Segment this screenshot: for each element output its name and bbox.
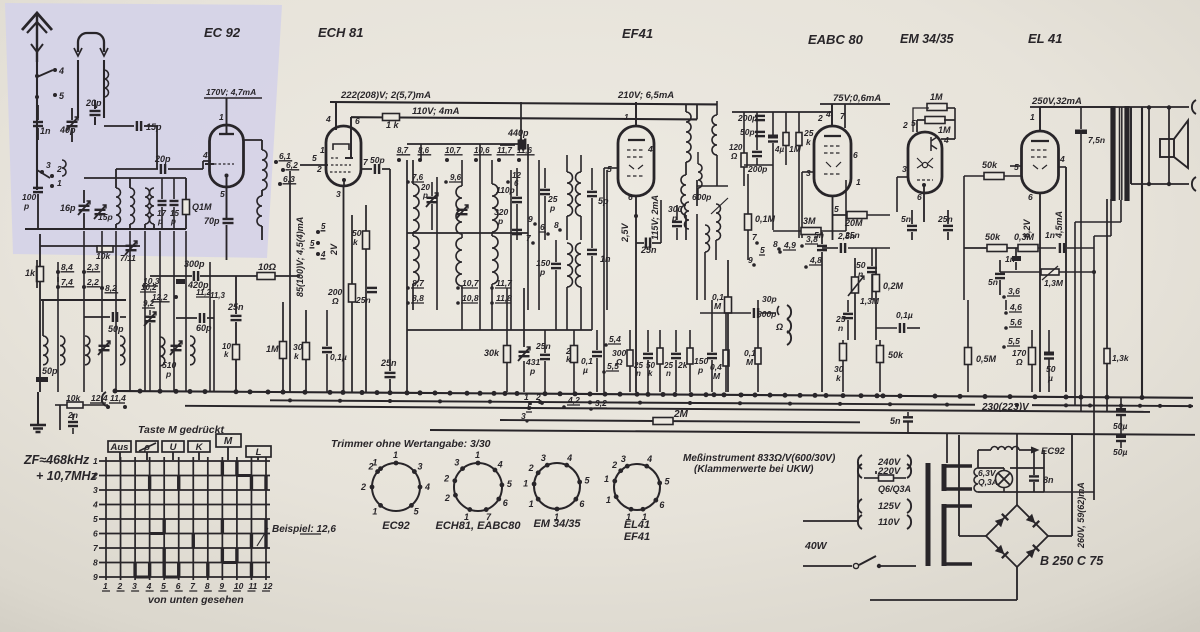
svg-text:3M: 3M: [803, 216, 816, 226]
svg-text:4,2: 4,2: [567, 395, 580, 405]
svg-text:210V; 6,5mA: 210V; 6,5mA: [617, 90, 674, 101]
svg-text:1n: 1n: [40, 126, 51, 136]
svg-text:0,3M: 0,3M: [1014, 232, 1035, 242]
svg-text:Q6/Q3A: Q6/Q3A: [878, 484, 911, 494]
svg-text:M: M: [713, 371, 721, 381]
svg-text:Trimmer ohne Wertangabe: 3/30: Trimmer ohne Wertangabe: 3/30: [331, 438, 491, 450]
svg-text:15p: 15p: [146, 122, 162, 132]
svg-text:5: 5: [220, 189, 225, 199]
svg-text:1: 1: [320, 145, 325, 155]
svg-text:n: n: [666, 369, 671, 378]
svg-text:3,2: 3,2: [595, 398, 607, 408]
svg-text:p: p: [697, 365, 703, 375]
svg-text:110V: 110V: [878, 517, 900, 528]
svg-text:1: 1: [372, 457, 377, 467]
svg-text:Beispiel: 12,6: Beispiel: 12,6: [272, 524, 336, 535]
svg-text:µ: µ: [1047, 373, 1053, 383]
svg-text:10Ω: 10Ω: [258, 262, 277, 273]
svg-text:4: 4: [566, 453, 572, 463]
svg-text:3: 3: [454, 457, 459, 467]
svg-text:EABC 80: EABC 80: [808, 32, 864, 47]
svg-text:8: 8: [554, 220, 559, 230]
svg-text:1: 1: [103, 581, 108, 591]
svg-text:2: 2: [92, 471, 98, 481]
svg-text:4µ: 4µ: [774, 145, 784, 154]
svg-text:1,3k: 1,3k: [1112, 353, 1130, 363]
svg-text:110p: 110p: [496, 185, 515, 195]
svg-text:5: 5: [93, 514, 98, 524]
svg-text:1M: 1M: [930, 92, 943, 102]
svg-text:10,6: 10,6: [474, 146, 490, 155]
svg-text:9: 9: [219, 581, 224, 591]
svg-text:260V, 59(62)mA: 260V, 59(62)mA: [1076, 482, 1086, 549]
svg-text:4: 4: [320, 250, 326, 259]
svg-text:11: 11: [248, 581, 257, 591]
svg-text:M: M: [224, 436, 233, 447]
svg-text:Ω: Ω: [1015, 357, 1023, 367]
svg-text:3: 3: [902, 164, 907, 174]
svg-text:EL41: EL41: [624, 519, 650, 531]
svg-text:4: 4: [497, 459, 503, 469]
svg-text:3: 3: [621, 454, 626, 464]
svg-text:1: 1: [624, 112, 629, 122]
svg-text:1,3M: 1,3M: [1044, 278, 1064, 288]
svg-text:1: 1: [529, 499, 534, 509]
svg-text:p: p: [23, 201, 29, 211]
svg-text:222(208)V; 2(5,7)mA: 222(208)V; 2(5,7)mA: [340, 90, 431, 101]
svg-text:25n: 25n: [640, 245, 657, 255]
svg-text:25n: 25n: [535, 341, 551, 351]
svg-text:5: 5: [607, 164, 612, 174]
svg-text:1n: 1n: [1045, 230, 1055, 240]
svg-text:6: 6: [355, 116, 360, 126]
svg-text:6: 6: [176, 581, 181, 591]
svg-text:4: 4: [92, 500, 98, 510]
svg-text:3: 3: [418, 461, 423, 471]
svg-text:2V: 2V: [329, 243, 339, 256]
svg-text:K: K: [196, 442, 204, 453]
svg-text:8,6: 8,6: [418, 146, 430, 155]
svg-text:5: 5: [1014, 162, 1019, 172]
svg-text:(Klammerwerte bei UKW): (Klammerwerte bei UKW): [694, 464, 814, 475]
svg-text:EC92: EC92: [382, 520, 410, 532]
svg-text:6: 6: [540, 222, 545, 232]
svg-text:2: 2: [56, 164, 62, 174]
svg-text:3: 3: [336, 189, 341, 199]
svg-text:9,6: 9,6: [450, 173, 462, 182]
svg-text:EC 92: EC 92: [204, 25, 241, 40]
svg-text:2: 2: [528, 463, 534, 473]
svg-text:2: 2: [902, 120, 908, 130]
svg-text:25n: 25n: [355, 295, 371, 305]
svg-text:6,3: 6,3: [283, 174, 295, 184]
svg-text:1: 1: [57, 178, 62, 188]
svg-text:600p: 600p: [692, 192, 711, 202]
svg-text:11,8: 11,8: [496, 293, 512, 303]
svg-text:+ 10,7MHz: + 10,7MHz: [36, 469, 98, 483]
svg-text:50p: 50p: [740, 127, 755, 137]
svg-text:75V;0,6mA: 75V;0,6mA: [833, 93, 881, 104]
svg-text:5: 5: [312, 153, 317, 163]
svg-text:1k: 1k: [25, 268, 36, 278]
svg-text:11,7: 11,7: [497, 146, 513, 155]
svg-text:3: 3: [132, 581, 137, 591]
svg-text:250V,32mA: 250V,32mA: [1031, 96, 1082, 107]
svg-text:3: 3: [806, 168, 811, 178]
svg-text:4,5mA: 4,5mA: [1054, 211, 1064, 239]
svg-text:50µ: 50µ: [1113, 447, 1127, 457]
svg-text:1: 1: [372, 507, 377, 517]
svg-text:10,2: 10,2: [141, 283, 157, 292]
svg-text:8,4: 8,4: [61, 262, 73, 272]
svg-text:Meßinstrument 833Ω/V(600/30V): Meßinstrument 833Ω/V(600/30V): [683, 453, 836, 464]
svg-text:ECH81, EABC80: ECH81, EABC80: [436, 520, 522, 532]
svg-text:2,5V: 2,5V: [620, 222, 630, 243]
svg-text:Ω: Ω: [730, 152, 738, 161]
svg-text:1M: 1M: [266, 344, 279, 354]
svg-text:25n: 25n: [937, 214, 953, 224]
svg-text:6: 6: [1028, 192, 1033, 202]
svg-text:110V; 4mA: 110V; 4mA: [412, 106, 460, 117]
svg-text:50k: 50k: [985, 232, 1001, 242]
svg-text:25n: 25n: [380, 358, 397, 368]
svg-text:1: 1: [524, 392, 529, 402]
svg-text:50k: 50k: [982, 160, 998, 170]
svg-text:6,2: 6,2: [286, 160, 298, 170]
svg-text:50p: 50p: [370, 155, 385, 165]
svg-text:1: 1: [219, 112, 224, 122]
svg-text:Taste M gedrückt: Taste M gedrückt: [138, 424, 224, 436]
svg-text:9: 9: [93, 572, 98, 582]
svg-text:p: p: [539, 267, 545, 277]
svg-text:40W: 40W: [804, 540, 828, 552]
svg-text:10k: 10k: [66, 393, 81, 403]
svg-text:70p: 70p: [204, 216, 220, 226]
svg-text:115V; 2mA: 115V; 2mA: [650, 195, 660, 240]
svg-text:8: 8: [773, 239, 778, 249]
svg-text:ECH 81: ECH 81: [318, 25, 364, 40]
svg-text:U: U: [170, 442, 178, 453]
svg-text:200p: 200p: [737, 113, 757, 123]
svg-text:2: 2: [444, 493, 450, 503]
svg-text:2: 2: [611, 460, 617, 470]
svg-text:1: 1: [1030, 112, 1035, 122]
svg-text:k: k: [224, 350, 229, 359]
svg-text:6: 6: [93, 529, 98, 539]
svg-text:4: 4: [646, 454, 652, 464]
svg-text:20p: 20p: [154, 154, 171, 164]
svg-text:µ: µ: [582, 365, 588, 375]
svg-text:5,4: 5,4: [609, 334, 621, 344]
svg-text:4: 4: [146, 581, 152, 591]
svg-text:16p: 16p: [60, 203, 76, 213]
svg-text:4,6: 4,6: [1009, 302, 1022, 312]
svg-text:7/11: 7/11: [120, 253, 136, 263]
svg-text:11,4: 11,4: [110, 393, 126, 403]
svg-text:1: 1: [604, 474, 609, 484]
svg-text:Ω: Ω: [775, 322, 783, 332]
svg-text:10,7: 10,7: [462, 278, 480, 288]
svg-text:M: M: [714, 301, 722, 311]
svg-text:10,8: 10,8: [462, 293, 479, 303]
svg-text:p: p: [497, 216, 503, 226]
svg-text:1n: 1n: [600, 254, 611, 264]
svg-text:5: 5: [527, 402, 532, 412]
svg-text:300p: 300p: [184, 259, 205, 269]
svg-text:15p: 15p: [98, 212, 113, 222]
svg-text:5n: 5n: [890, 416, 901, 426]
svg-text:11,7: 11,7: [496, 278, 513, 288]
svg-text:230(223)V: 230(223)V: [981, 402, 1030, 413]
svg-text:4: 4: [647, 144, 653, 154]
svg-text:2: 2: [817, 113, 823, 123]
svg-text:30k: 30k: [484, 348, 500, 358]
svg-text:von unten gesehen: von unten gesehen: [148, 594, 244, 606]
svg-text:2,3: 2,3: [86, 262, 99, 272]
svg-text:L: L: [256, 447, 262, 458]
svg-text:2: 2: [117, 581, 123, 591]
svg-text:12: 12: [263, 581, 273, 591]
svg-text:10k: 10k: [96, 251, 111, 261]
svg-text:1: 1: [523, 478, 528, 488]
svg-text:5: 5: [911, 118, 916, 128]
svg-text:9: 9: [528, 214, 533, 224]
svg-text:k: k: [648, 369, 653, 378]
svg-text:6: 6: [628, 192, 633, 202]
svg-text:p: p: [170, 217, 176, 226]
svg-text:1 k: 1 k: [386, 120, 400, 130]
svg-text:60p: 60p: [196, 323, 212, 333]
svg-text:M: M: [746, 357, 754, 367]
svg-text:EF41: EF41: [624, 531, 650, 543]
svg-text:1: 1: [93, 456, 98, 466]
svg-text:8,7: 8,7: [412, 278, 425, 288]
svg-text:5n: 5n: [901, 214, 911, 224]
svg-text:120: 120: [729, 143, 743, 152]
svg-text:0,1µ: 0,1µ: [896, 310, 913, 320]
svg-text:4,9: 4,9: [783, 240, 796, 250]
svg-text:8: 8: [93, 558, 98, 568]
svg-text:2: 2: [535, 392, 541, 402]
svg-text:EM 34/35: EM 34/35: [900, 32, 955, 46]
svg-text:Aus: Aus: [110, 442, 129, 453]
svg-text:50k: 50k: [888, 350, 904, 360]
svg-text:8,8: 8,8: [412, 293, 424, 303]
svg-text:10,7: 10,7: [445, 146, 461, 155]
svg-text:12,4: 12,4: [91, 393, 108, 403]
svg-text:800p: 800p: [757, 309, 776, 319]
svg-text:2M: 2M: [673, 409, 689, 420]
svg-text:1M: 1M: [938, 125, 951, 135]
svg-text:25n: 25n: [844, 230, 860, 240]
svg-text:9: 9: [748, 255, 753, 265]
svg-text:7,5n: 7,5n: [1088, 135, 1105, 145]
svg-text:4: 4: [202, 150, 208, 160]
svg-text:20M: 20M: [844, 218, 863, 228]
svg-text:1: 1: [856, 177, 861, 187]
svg-text:p: p: [165, 369, 171, 379]
svg-text:170V; 4,7mA: 170V; 4,7mA: [206, 87, 256, 97]
svg-text:30p: 30p: [762, 294, 777, 304]
svg-text:5: 5: [161, 581, 166, 591]
svg-text:Ω: Ω: [331, 296, 339, 306]
svg-text:3,6: 3,6: [1008, 286, 1020, 296]
svg-text:3: 3: [521, 411, 526, 421]
svg-text:50p: 50p: [42, 366, 58, 376]
svg-text:p: p: [549, 203, 555, 213]
svg-text:4: 4: [825, 109, 831, 119]
svg-text:10: 10: [234, 581, 244, 591]
svg-text:5: 5: [760, 245, 765, 255]
svg-text:6: 6: [917, 192, 922, 202]
svg-text:5: 5: [310, 239, 315, 248]
svg-text:8,7: 8,7: [397, 146, 409, 155]
svg-text:2: 2: [443, 474, 449, 484]
svg-text:EL 41: EL 41: [1028, 31, 1062, 46]
svg-text:3: 3: [541, 453, 546, 463]
svg-text:n: n: [838, 323, 843, 333]
svg-text:ZF≈468kHz: ZF≈468kHz: [23, 453, 90, 467]
svg-text:2: 2: [360, 482, 366, 492]
svg-text:0,5M: 0,5M: [976, 354, 997, 364]
svg-text:2,2: 2,2: [86, 277, 99, 287]
svg-text:4: 4: [325, 114, 331, 124]
svg-text:3: 3: [46, 160, 51, 170]
svg-text:5: 5: [321, 222, 326, 231]
svg-text:0,2M: 0,2M: [883, 281, 904, 291]
svg-text:1: 1: [475, 450, 480, 460]
svg-text:1: 1: [606, 495, 611, 505]
svg-text:4: 4: [943, 135, 949, 145]
svg-text:4: 4: [58, 66, 64, 76]
svg-text:0,1M: 0,1M: [755, 214, 776, 224]
svg-text:440p: 440p: [507, 128, 529, 138]
svg-text:5,5: 5,5: [1008, 336, 1020, 346]
svg-text:3: 3: [93, 485, 98, 495]
svg-text:8: 8: [205, 581, 210, 591]
svg-text:50p: 50p: [108, 324, 124, 334]
svg-text:6: 6: [853, 150, 858, 160]
svg-text:7,4: 7,4: [61, 277, 73, 287]
svg-text:1: 1: [393, 450, 398, 460]
svg-text:0,1µ: 0,1µ: [330, 352, 347, 362]
svg-text:125V: 125V: [878, 501, 901, 512]
svg-text:5,5: 5,5: [607, 361, 619, 371]
svg-text:EM 34/35: EM 34/35: [533, 518, 581, 530]
svg-text:EF41: EF41: [622, 26, 653, 41]
svg-text:5,6: 5,6: [1010, 317, 1022, 327]
svg-text:4: 4: [1059, 154, 1065, 164]
svg-text:85(100)V; 4,5(4)mA: 85(100)V; 4,5(4)mA: [295, 217, 305, 297]
svg-text:20p: 20p: [85, 98, 102, 108]
svg-text:11,3: 11,3: [210, 291, 226, 300]
svg-text:B 250 C 75: B 250 C 75: [1040, 554, 1104, 568]
svg-text:4: 4: [424, 482, 430, 492]
svg-text:p: p: [529, 366, 535, 376]
svg-text:4,8: 4,8: [809, 255, 822, 265]
svg-text:5: 5: [834, 204, 839, 214]
svg-text:Q1M: Q1M: [192, 202, 212, 212]
